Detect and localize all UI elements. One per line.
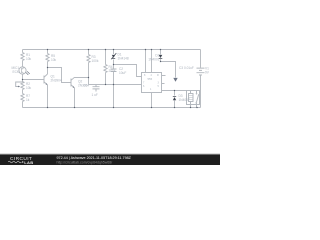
svg-text:http://circuitlab.com/cvp64dqh: http://circuitlab.com/cvp64dqh5w68r xyxy=(57,160,114,164)
svg-text:R3: R3 xyxy=(92,55,96,59)
svg-text:100k: 100k xyxy=(92,59,99,63)
svg-text:972.44 | Ashwave 2021-11-05T18: 972.44 | Ashwave 2021-11-05T18:29:11.798… xyxy=(57,156,132,160)
svg-text:C1: C1 xyxy=(84,84,88,88)
svg-text:D1: D1 xyxy=(118,53,122,57)
svg-text:ECM: ECM xyxy=(13,70,20,74)
svg-text:R1: R1 xyxy=(26,53,30,57)
svg-text:C2: C2 xyxy=(119,67,123,71)
svg-text:C3 0.01uF: C3 0.01uF xyxy=(179,66,194,70)
svg-text:1k: 1k xyxy=(26,98,30,102)
svg-text:R2: R2 xyxy=(26,82,30,86)
svg-text:1 uF: 1 uF xyxy=(92,93,98,97)
svg-text:1N4148: 1N4148 xyxy=(118,57,129,61)
svg-text:D2: D2 xyxy=(155,54,159,58)
svg-text:V1: V1 xyxy=(205,67,209,71)
svg-text:R5: R5 xyxy=(51,54,55,58)
svg-text:MIC1: MIC1 xyxy=(12,66,20,70)
svg-text:1N4007: 1N4007 xyxy=(179,98,190,102)
svg-text:Q2: Q2 xyxy=(78,80,82,84)
svg-text:D3: D3 xyxy=(179,94,183,98)
svg-text:R: R xyxy=(157,74,159,77)
svg-text:R7: R7 xyxy=(26,94,30,98)
svg-text:10k: 10k xyxy=(26,57,32,61)
svg-text:555: 555 xyxy=(148,77,153,81)
svg-text:2N3904: 2N3904 xyxy=(51,79,62,83)
svg-text:Q1: Q1 xyxy=(51,75,55,79)
svg-text:200k: 200k xyxy=(109,69,116,73)
svg-text:R4: R4 xyxy=(109,65,113,69)
svg-text:10uF: 10uF xyxy=(119,71,126,75)
svg-text:10k: 10k xyxy=(51,58,57,62)
svg-text:LAB: LAB xyxy=(24,160,33,165)
svg-text:10k: 10k xyxy=(26,86,32,90)
svg-text:1N4001: 1N4001 xyxy=(148,58,159,62)
